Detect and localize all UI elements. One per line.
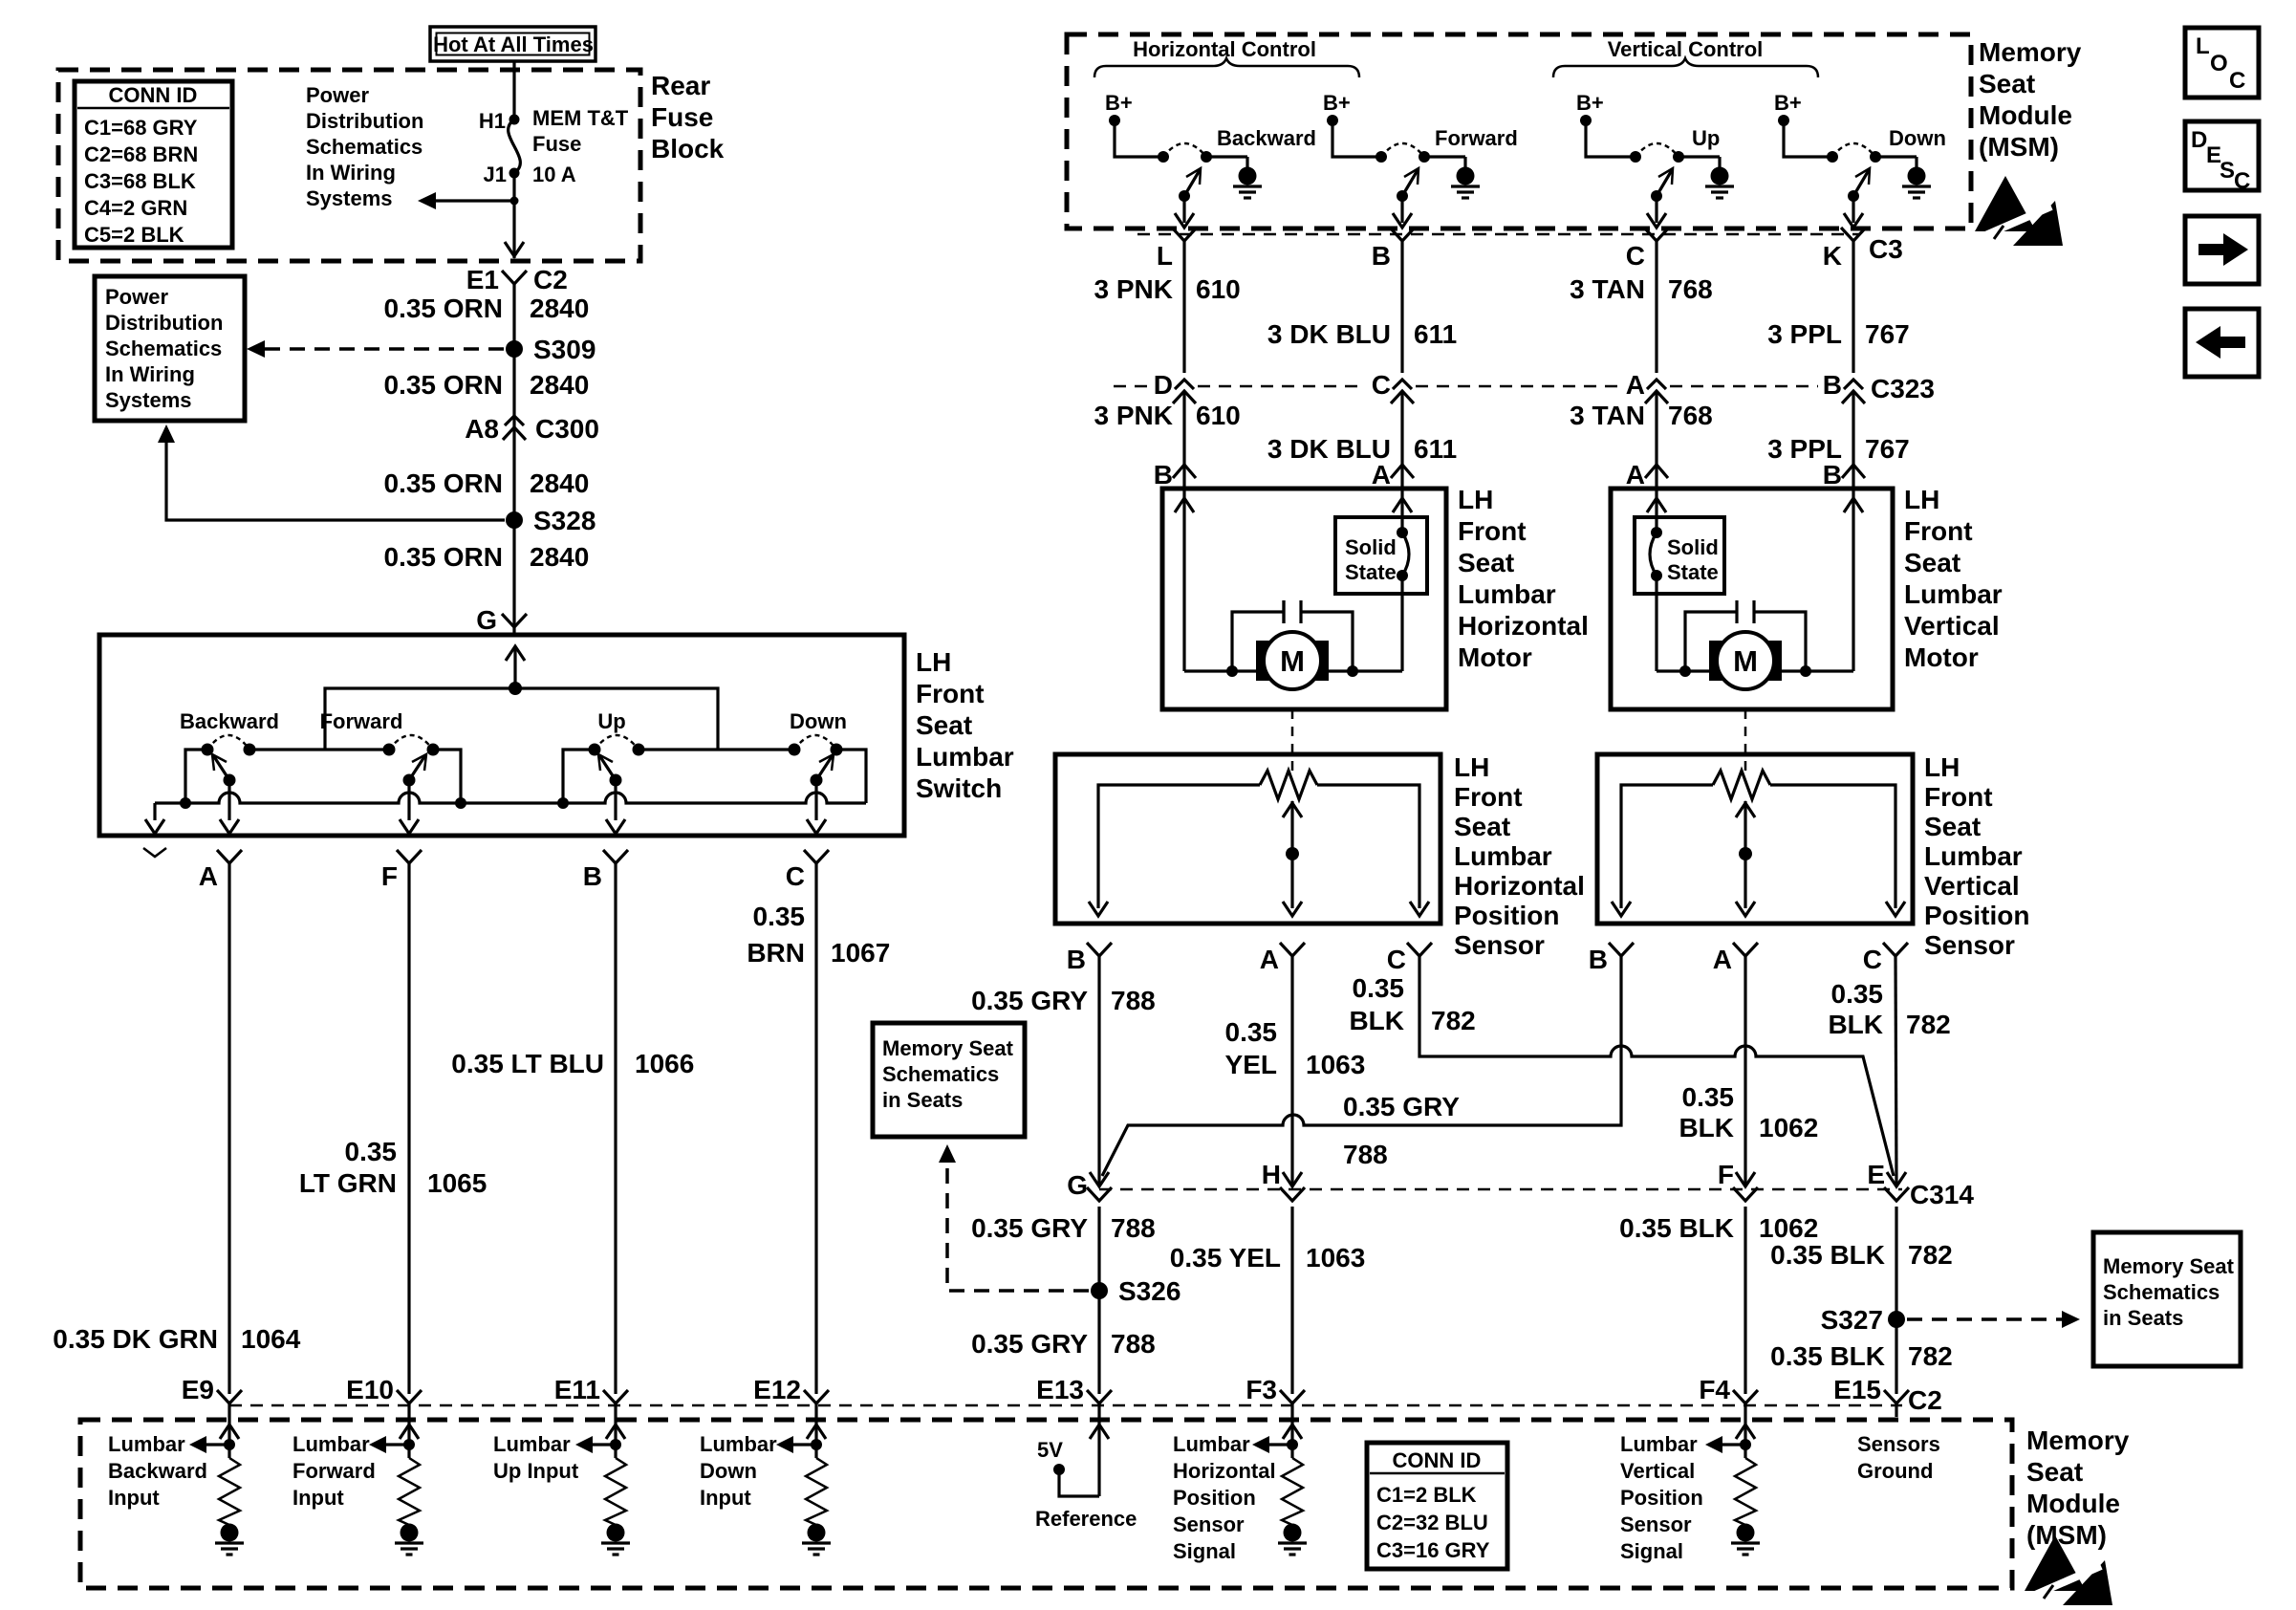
label 0.35 BLK 782 (below C314) — [1770, 1240, 1953, 1270]
svg-text:Memory Seat: Memory Seat — [2103, 1254, 2235, 1278]
MSM top dashed box — [1067, 34, 1971, 228]
connector pin B (C3) — [1372, 228, 1415, 271]
connector pin B (C323) — [1823, 370, 1865, 403]
label Memory Seat Module (MSM) bottom — [2026, 1425, 2130, 1550]
label Memory Seat Module (MSM) top — [1979, 37, 2082, 162]
svg-text:F3: F3 — [1245, 1375, 1277, 1404]
label 3 DK BLU 611 (lower) — [1267, 434, 1457, 464]
svg-text:Schematics: Schematics — [2103, 1280, 2220, 1304]
svg-text:E13: E13 — [1036, 1375, 1084, 1404]
label LH Front Seat Lumbar Horizontal Motor — [1458, 485, 1589, 672]
connector C2 dashed line (bottom) — [229, 1404, 1902, 1407]
svg-text:Lumbar: Lumbar — [1924, 841, 2023, 871]
svg-text:LH: LH — [1904, 485, 1939, 514]
svg-text:Backward: Backward — [108, 1459, 207, 1483]
pivot wire output B — [606, 780, 625, 834]
svg-text:Position: Position — [1620, 1486, 1703, 1510]
label 0.35 BLK 782 (sensor C horizontal) — [1349, 973, 1475, 1035]
svg-text:Sensor: Sensor — [1924, 930, 2015, 960]
svg-text:Ground: Ground — [1857, 1459, 1933, 1483]
svg-text:Seat: Seat — [2026, 1457, 2083, 1487]
label 0.35 ORN 2840 (4) — [384, 542, 590, 572]
CONN ID table (MSM bottom) — [1367, 1443, 1507, 1569]
feed wire into switch — [506, 646, 525, 695]
svg-text:Power: Power — [306, 83, 369, 107]
svg-text:C3=16 GRY: C3=16 GRY — [1376, 1538, 1490, 1562]
label 0.35 BLK 782 (above E15) — [1770, 1341, 1953, 1371]
connector pin G (C314) — [1067, 1170, 1112, 1201]
svg-text:5V: 5V — [1037, 1438, 1063, 1462]
svg-text:YEL: YEL — [1225, 1050, 1277, 1079]
lumbar backward input circuit — [189, 1403, 244, 1555]
svg-text:Horizontal Control: Horizontal Control — [1133, 37, 1316, 61]
svg-text:0.35 GRY: 0.35 GRY — [971, 1329, 1088, 1359]
svg-text:Memory: Memory — [1979, 37, 2082, 67]
MSM bottom dashed box — [80, 1420, 2012, 1588]
svg-text:Vertical: Vertical — [1620, 1459, 1695, 1483]
label 0.35 DK GRN 1064 — [53, 1324, 300, 1354]
pivot wire output A — [220, 780, 239, 834]
label Lumbar Forward Input — [292, 1432, 376, 1510]
connector pin H (C314) — [1262, 1160, 1305, 1201]
svg-text:B: B — [583, 861, 602, 891]
svg-text:Lumbar: Lumbar — [916, 742, 1014, 772]
svg-text:MEM T&T: MEM T&T — [532, 106, 629, 130]
label 0.35 BLK 782 (sensor2 C) — [1828, 979, 1950, 1039]
svg-text:(MSM): (MSM) — [1979, 132, 2059, 162]
connector pin E15 — [1833, 1375, 1909, 1404]
svg-text:Sensor: Sensor — [1173, 1512, 1245, 1536]
label LH Front Seat Lumbar Vertical Motor — [1904, 485, 2003, 672]
svg-text:0.35: 0.35 — [753, 902, 806, 931]
svg-text:In Wiring: In Wiring — [105, 362, 195, 386]
label Lumbar Up Input — [493, 1432, 579, 1483]
svg-text:0.35: 0.35 — [1225, 1017, 1278, 1047]
wire A inside vertical motor — [1647, 489, 1666, 671]
svg-text:LH: LH — [916, 647, 951, 677]
solid state box (vertical motor) — [1635, 517, 1724, 594]
svg-text:S328: S328 — [533, 506, 596, 535]
junction node backward-bus — [180, 797, 191, 809]
svg-text:C: C — [786, 861, 805, 891]
label 0.35 BRN 1067 — [747, 902, 890, 968]
solid state box (horizontal motor) — [1335, 517, 1427, 594]
svg-text:Seat: Seat — [1979, 69, 2035, 98]
dashed link motor to sensor (horizontal) — [1291, 709, 1294, 776]
svg-text:C314: C314 — [1910, 1180, 1974, 1209]
svg-text:0.35 ORN: 0.35 ORN — [384, 294, 504, 323]
label 3 PNK 610 (upper) — [1094, 274, 1241, 304]
svg-text:Memory: Memory — [2026, 1425, 2130, 1455]
wire D to motor — [1182, 393, 1185, 489]
wire F to F4 — [1744, 1207, 1746, 1394]
svg-text:LH: LH — [1924, 752, 1960, 782]
pivot wire output F — [400, 780, 419, 834]
svg-text:Distribution: Distribution — [306, 109, 423, 133]
potentiometer wiper (horizontal sensor) — [1283, 801, 1302, 916]
svg-text:S: S — [2220, 158, 2235, 184]
svg-text:BLK: BLK — [1828, 1010, 1883, 1039]
svg-text:1062: 1062 — [1759, 1213, 1818, 1243]
label 0.35 LT BLU 1066 — [451, 1049, 694, 1078]
svg-text:Up: Up — [1692, 126, 1720, 150]
svg-text:768: 768 — [1668, 274, 1713, 304]
connector pin C (horizontal sensor) — [1387, 943, 1432, 974]
wire forward contact to return bus — [433, 750, 461, 803]
svg-text:C: C — [1626, 241, 1645, 271]
svg-text:1066: 1066 — [635, 1049, 694, 1078]
svg-text:Up: Up — [597, 709, 625, 733]
wire sensor2 A to pin F — [1744, 956, 1746, 1184]
svg-text:C5=2 BLK: C5=2 BLK — [84, 223, 184, 247]
svg-text:782: 782 — [1906, 1010, 1951, 1039]
label 0.35 YEL 1063 (below C314) — [1170, 1243, 1366, 1273]
return bus with hops — [155, 793, 866, 803]
svg-text:F4: F4 — [1699, 1375, 1730, 1404]
svg-text:1067: 1067 — [831, 938, 890, 968]
svg-text:C1=2 BLK: C1=2 BLK — [1376, 1483, 1477, 1507]
svg-text:Solid: Solid — [1667, 535, 1719, 559]
pivot wire output C — [807, 780, 826, 834]
label LH Front Seat Lumbar Vertical Position Sensor — [1924, 752, 2029, 960]
svg-text:610: 610 — [1196, 401, 1241, 430]
svg-text:C4=2 GRN: C4=2 GRN — [84, 196, 187, 220]
note box Memory Seat Schematics in Seats (right) — [2093, 1232, 2241, 1366]
motor box LH Front Seat Lumbar Vertical Motor — [1611, 489, 1893, 709]
svg-text:H: H — [1262, 1160, 1281, 1189]
svg-text:Lumbar: Lumbar — [1458, 579, 1556, 609]
svg-text:BLK: BLK — [1679, 1113, 1734, 1142]
dashed reference from S326 to seats box — [939, 1144, 1089, 1291]
label 0.35 GRY 788 (below C314) — [971, 1213, 1156, 1243]
svg-text:G: G — [476, 605, 497, 635]
svg-text:0.35 GRY: 0.35 GRY — [971, 986, 1088, 1015]
svg-text:Distribution: Distribution — [105, 311, 223, 335]
wire B inside horizontal motor — [1175, 489, 1194, 671]
svg-text:1063: 1063 — [1306, 1243, 1365, 1273]
note Power Distribution Schematics In Wiring Systems (fuse block) — [306, 83, 423, 210]
arrow into connector E1 — [505, 242, 524, 256]
svg-text:S327: S327 — [1821, 1305, 1883, 1335]
fuse MEM T&T 10A — [479, 106, 629, 186]
svg-text:2840: 2840 — [530, 542, 589, 572]
svg-text:M: M — [1280, 644, 1305, 678]
connector pin F — [381, 850, 422, 891]
switch Up (lumbar switch) — [589, 709, 795, 787]
junction node forward-bus — [455, 797, 466, 809]
splice S328 — [506, 506, 596, 535]
wire A to motor — [1655, 393, 1657, 489]
svg-text:E9: E9 — [182, 1375, 214, 1404]
svg-text:B: B — [1372, 241, 1391, 271]
connector pin E11 — [554, 1375, 628, 1404]
svg-text:C323: C323 — [1871, 374, 1935, 403]
svg-text:Signal: Signal — [1173, 1539, 1236, 1563]
potentiometer (horizontal sensor) — [1089, 771, 1429, 916]
svg-text:Lumbar: Lumbar — [493, 1432, 571, 1456]
connector pin L — [1157, 228, 1197, 271]
svg-text:Systems: Systems — [306, 186, 393, 210]
wire K to C323 — [1852, 241, 1854, 373]
svg-text:C: C — [1863, 945, 1882, 974]
svg-text:B+: B+ — [1576, 91, 1604, 115]
svg-text:A8: A8 — [465, 414, 499, 444]
switch Backward (lumbar switch) — [180, 709, 389, 787]
connector pin A at vertical motor — [1626, 460, 1668, 490]
solid state switch contacts (horizontal) — [1397, 527, 1409, 581]
svg-text:Sensor: Sensor — [1454, 930, 1545, 960]
svg-text:611: 611 — [1414, 319, 1457, 349]
svg-text:B: B — [1589, 945, 1608, 974]
svg-text:Input: Input — [292, 1486, 344, 1510]
svg-text:Seat: Seat — [1454, 812, 1510, 841]
svg-text:0.35 BLK: 0.35 BLK — [1770, 1240, 1885, 1270]
label Lumbar Down Input — [700, 1432, 777, 1510]
svg-text:Fuse: Fuse — [532, 132, 581, 156]
label 0.35 BLK 1062 (sensor2 A) — [1679, 1082, 1818, 1142]
svg-text:C3: C3 — [1869, 234, 1903, 264]
label 3 TAN 768 (upper) — [1570, 274, 1713, 304]
svg-text:B: B — [1154, 460, 1173, 490]
svg-text:Horizontal: Horizontal — [1454, 871, 1585, 901]
potentiometer wiper (vertical sensor) — [1736, 801, 1755, 916]
svg-text:767: 767 — [1865, 319, 1910, 349]
svg-text:C: C — [1372, 370, 1391, 400]
svg-text:Signal: Signal — [1620, 1539, 1683, 1563]
connector stub below box (unused pin) — [143, 848, 166, 857]
connector pin G of switch — [476, 605, 527, 635]
rear fuse block dashed box — [58, 70, 640, 261]
label 0.35 GRY 788 (crossover) — [1343, 1092, 1460, 1169]
svg-text:S309: S309 — [533, 335, 596, 364]
svg-text:C1=68 GRY: C1=68 GRY — [84, 116, 198, 140]
svg-text:Fuse: Fuse — [651, 102, 713, 132]
note box Power Distribution Schematics In Wiring Systems — [95, 276, 245, 421]
svg-text:CONN ID: CONN ID — [109, 83, 198, 107]
svg-text:Horizontal: Horizontal — [1458, 611, 1589, 641]
return bus exit arrow — [145, 803, 164, 834]
svg-text:Switch: Switch — [916, 773, 1002, 803]
svg-text:D: D — [1154, 370, 1173, 400]
svg-text:Front: Front — [1904, 516, 1973, 546]
box Hot At All Times — [430, 27, 596, 61]
dashed reference arrow from S309 — [247, 340, 504, 358]
svg-text:Seat: Seat — [1904, 548, 1960, 577]
wire C to C323 — [1655, 241, 1657, 373]
svg-text:2840: 2840 — [530, 370, 589, 400]
label Lumbar Backward Input — [108, 1432, 207, 1510]
svg-text:Up Input: Up Input — [493, 1459, 579, 1483]
svg-text:LH: LH — [1454, 752, 1489, 782]
branch arrow to power distribution (inside fuse block) — [418, 192, 519, 209]
svg-text:Down: Down — [790, 709, 847, 733]
svg-text:Motor: Motor — [1904, 642, 1979, 672]
svg-text:Lumbar: Lumbar — [700, 1432, 777, 1456]
svg-text:Front: Front — [1458, 516, 1527, 546]
svg-text:Backward: Backward — [180, 709, 279, 733]
svg-text:BRN: BRN — [747, 938, 805, 968]
connector pin E9 — [182, 1375, 242, 1404]
svg-text:788: 788 — [1111, 986, 1156, 1015]
wire G to E13 — [1097, 1207, 1100, 1394]
dashed link motor to sensor (vertical) — [1744, 709, 1747, 776]
svg-text:Lumbar: Lumbar — [292, 1432, 370, 1456]
label Horizontal Control with brace — [1094, 37, 1359, 77]
connector pin B — [583, 850, 628, 891]
svg-text:788: 788 — [1111, 1329, 1156, 1359]
connector pin A at horizontal motor — [1372, 460, 1414, 490]
label 3 DK BLU 611 (upper) — [1267, 319, 1457, 349]
svg-text:M: M — [1733, 644, 1758, 678]
connector pin B at horizontal motor — [1154, 460, 1196, 490]
svg-text:Position: Position — [1173, 1486, 1256, 1510]
svg-text:Backward: Backward — [1217, 126, 1316, 150]
svg-text:610: 610 — [1196, 274, 1241, 304]
wire L to C323 — [1182, 241, 1185, 373]
connector A8 C300 — [465, 414, 599, 444]
connector E1 / C2 — [466, 265, 568, 294]
connector pin A (C323) — [1626, 370, 1668, 403]
wire down contact to return bus — [836, 750, 866, 803]
lumbar forward input circuit — [369, 1403, 423, 1555]
svg-text:Lumbar: Lumbar — [1173, 1432, 1250, 1456]
connector pin F3 — [1245, 1375, 1305, 1404]
svg-text:A: A — [1372, 460, 1391, 490]
svg-text:Input: Input — [108, 1486, 160, 1510]
svg-text:Down: Down — [1889, 126, 1946, 150]
svg-text:L: L — [1157, 241, 1173, 271]
lumbar vertical position sensor signal circuit — [1705, 1403, 1760, 1555]
svg-text:1065: 1065 — [427, 1168, 487, 1198]
label Rear Fuse Block — [651, 71, 725, 163]
svg-text:Position: Position — [1924, 901, 2029, 930]
5V reference circuit — [1035, 1403, 1137, 1531]
label 0.35 ORN 2840 (1) — [384, 294, 590, 323]
svg-text:0.35 BLK: 0.35 BLK — [1770, 1341, 1885, 1371]
label Lumbar Vertical Position Sensor Signal — [1620, 1432, 1703, 1563]
wire H to F3 — [1290, 1207, 1293, 1394]
svg-text:C300: C300 — [535, 414, 599, 444]
wire F to E10 — [407, 863, 410, 1394]
junction node up-bus — [557, 797, 569, 809]
svg-text:0.35 GRY: 0.35 GRY — [971, 1213, 1088, 1243]
svg-text:Front: Front — [916, 679, 985, 708]
label 0.35 GRY 788 (sensor B) — [971, 986, 1156, 1015]
label 0.35 LT GRN 1065 — [299, 1137, 487, 1198]
wire sensor2 C to pin E — [1895, 956, 1896, 1184]
svg-text:0.35 GRY: 0.35 GRY — [1343, 1092, 1460, 1121]
wire E to E15 — [1895, 1207, 1897, 1394]
svg-text:0.35 BLK: 0.35 BLK — [1619, 1213, 1734, 1243]
svg-text:Rear: Rear — [651, 71, 710, 100]
svg-text:788: 788 — [1111, 1213, 1156, 1243]
sensors ground wire stub — [1895, 1403, 1897, 1417]
icon box left arrow — [2185, 309, 2259, 377]
svg-text:A: A — [199, 861, 218, 891]
motor M symbol (vertical) — [1709, 632, 1782, 689]
svg-text:E1: E1 — [466, 265, 499, 294]
label Vertical Control with brace — [1553, 37, 1818, 77]
svg-text:Input: Input — [700, 1486, 751, 1510]
label 3 PPL 767 (upper) — [1767, 319, 1910, 349]
note box Memory Seat Schematics in Seats (left) — [873, 1023, 1025, 1137]
label 3 PNK 610 (lower) — [1094, 401, 1241, 430]
svg-text:1063: 1063 — [1306, 1050, 1365, 1079]
branch wire S328 up to note box — [158, 424, 505, 520]
svg-text:Forward: Forward — [320, 709, 403, 733]
svg-text:Hot At All Times: Hot At All Times — [433, 33, 594, 56]
potentiometer (vertical sensor) — [1612, 771, 1905, 916]
svg-text:Memory Seat: Memory Seat — [882, 1036, 1014, 1060]
svg-text:Forward: Forward — [1435, 126, 1518, 150]
svg-text:H1: H1 — [479, 109, 506, 133]
wire sensor1 C across to pin E (BLK 782) — [1419, 956, 1894, 1176]
connector C323 dashed line — [1114, 385, 1867, 388]
svg-text:D: D — [2191, 127, 2207, 153]
svg-text:Down: Down — [700, 1459, 757, 1483]
svg-text:Reference: Reference — [1035, 1507, 1137, 1531]
svg-text:Block: Block — [651, 134, 725, 163]
svg-text:Position: Position — [1454, 901, 1559, 930]
motor M armature circuit (horizontal) — [1184, 600, 1402, 677]
connector pin B (vertical sensor) — [1589, 943, 1634, 974]
connector C3 dashed line — [1137, 233, 1859, 236]
svg-text:E15: E15 — [1833, 1375, 1881, 1404]
MSM switch Backward — [1105, 91, 1316, 228]
svg-text:C2=68 BRN: C2=68 BRN — [84, 142, 198, 166]
svg-text:A: A — [1713, 945, 1732, 974]
svg-text:1064: 1064 — [241, 1324, 301, 1354]
svg-text:C3=68 BLK: C3=68 BLK — [84, 169, 196, 193]
CONN ID table (rear fuse block) — [75, 81, 232, 248]
svg-text:2840: 2840 — [530, 468, 589, 498]
svg-text:3 TAN: 3 TAN — [1570, 274, 1645, 304]
svg-text:B+: B+ — [1774, 91, 1802, 115]
connector pin A (vertical sensor) — [1713, 943, 1758, 974]
connector pin B (horizontal sensor) — [1067, 943, 1112, 974]
svg-text:Power: Power — [105, 285, 168, 309]
MSM switch Forward — [1323, 91, 1518, 228]
label Sensors Ground — [1857, 1432, 1940, 1483]
svg-text:Seat: Seat — [1924, 812, 1981, 841]
wire B inside vertical motor — [1844, 489, 1863, 671]
svg-text:In Wiring: In Wiring — [306, 161, 396, 185]
motor M armature circuit (vertical) — [1657, 600, 1853, 677]
svg-text:F: F — [381, 861, 398, 891]
label 3 TAN 768 (lower) — [1570, 401, 1713, 430]
svg-text:B+: B+ — [1105, 91, 1133, 115]
wire C to motor — [1400, 393, 1403, 489]
svg-text:Vertical: Vertical — [1924, 871, 2020, 901]
svg-text:0.35: 0.35 — [1682, 1082, 1735, 1112]
svg-text:Sensor: Sensor — [1620, 1512, 1692, 1536]
label 0.35 ORN 2840 (2) — [384, 370, 590, 400]
svg-text:C2: C2 — [1908, 1385, 1942, 1415]
svg-text:B: B — [1823, 370, 1842, 400]
svg-text:E11: E11 — [554, 1375, 600, 1404]
switch Down (lumbar switch) — [789, 709, 847, 787]
label 0.35 YEL 1063 (sensor A) — [1225, 1017, 1366, 1079]
MSM switch Down — [1774, 91, 1946, 228]
svg-text:BLK: BLK — [1349, 1006, 1404, 1035]
svg-text:Schematics: Schematics — [306, 135, 422, 159]
svg-text:Schematics: Schematics — [105, 337, 222, 360]
splice S327 — [1821, 1305, 1905, 1335]
connector pin D (C323) — [1154, 370, 1196, 403]
svg-text:0.35 ORN: 0.35 ORN — [384, 468, 504, 498]
svg-text:767: 767 — [1865, 434, 1910, 464]
connector pin E13 — [1036, 1375, 1112, 1404]
